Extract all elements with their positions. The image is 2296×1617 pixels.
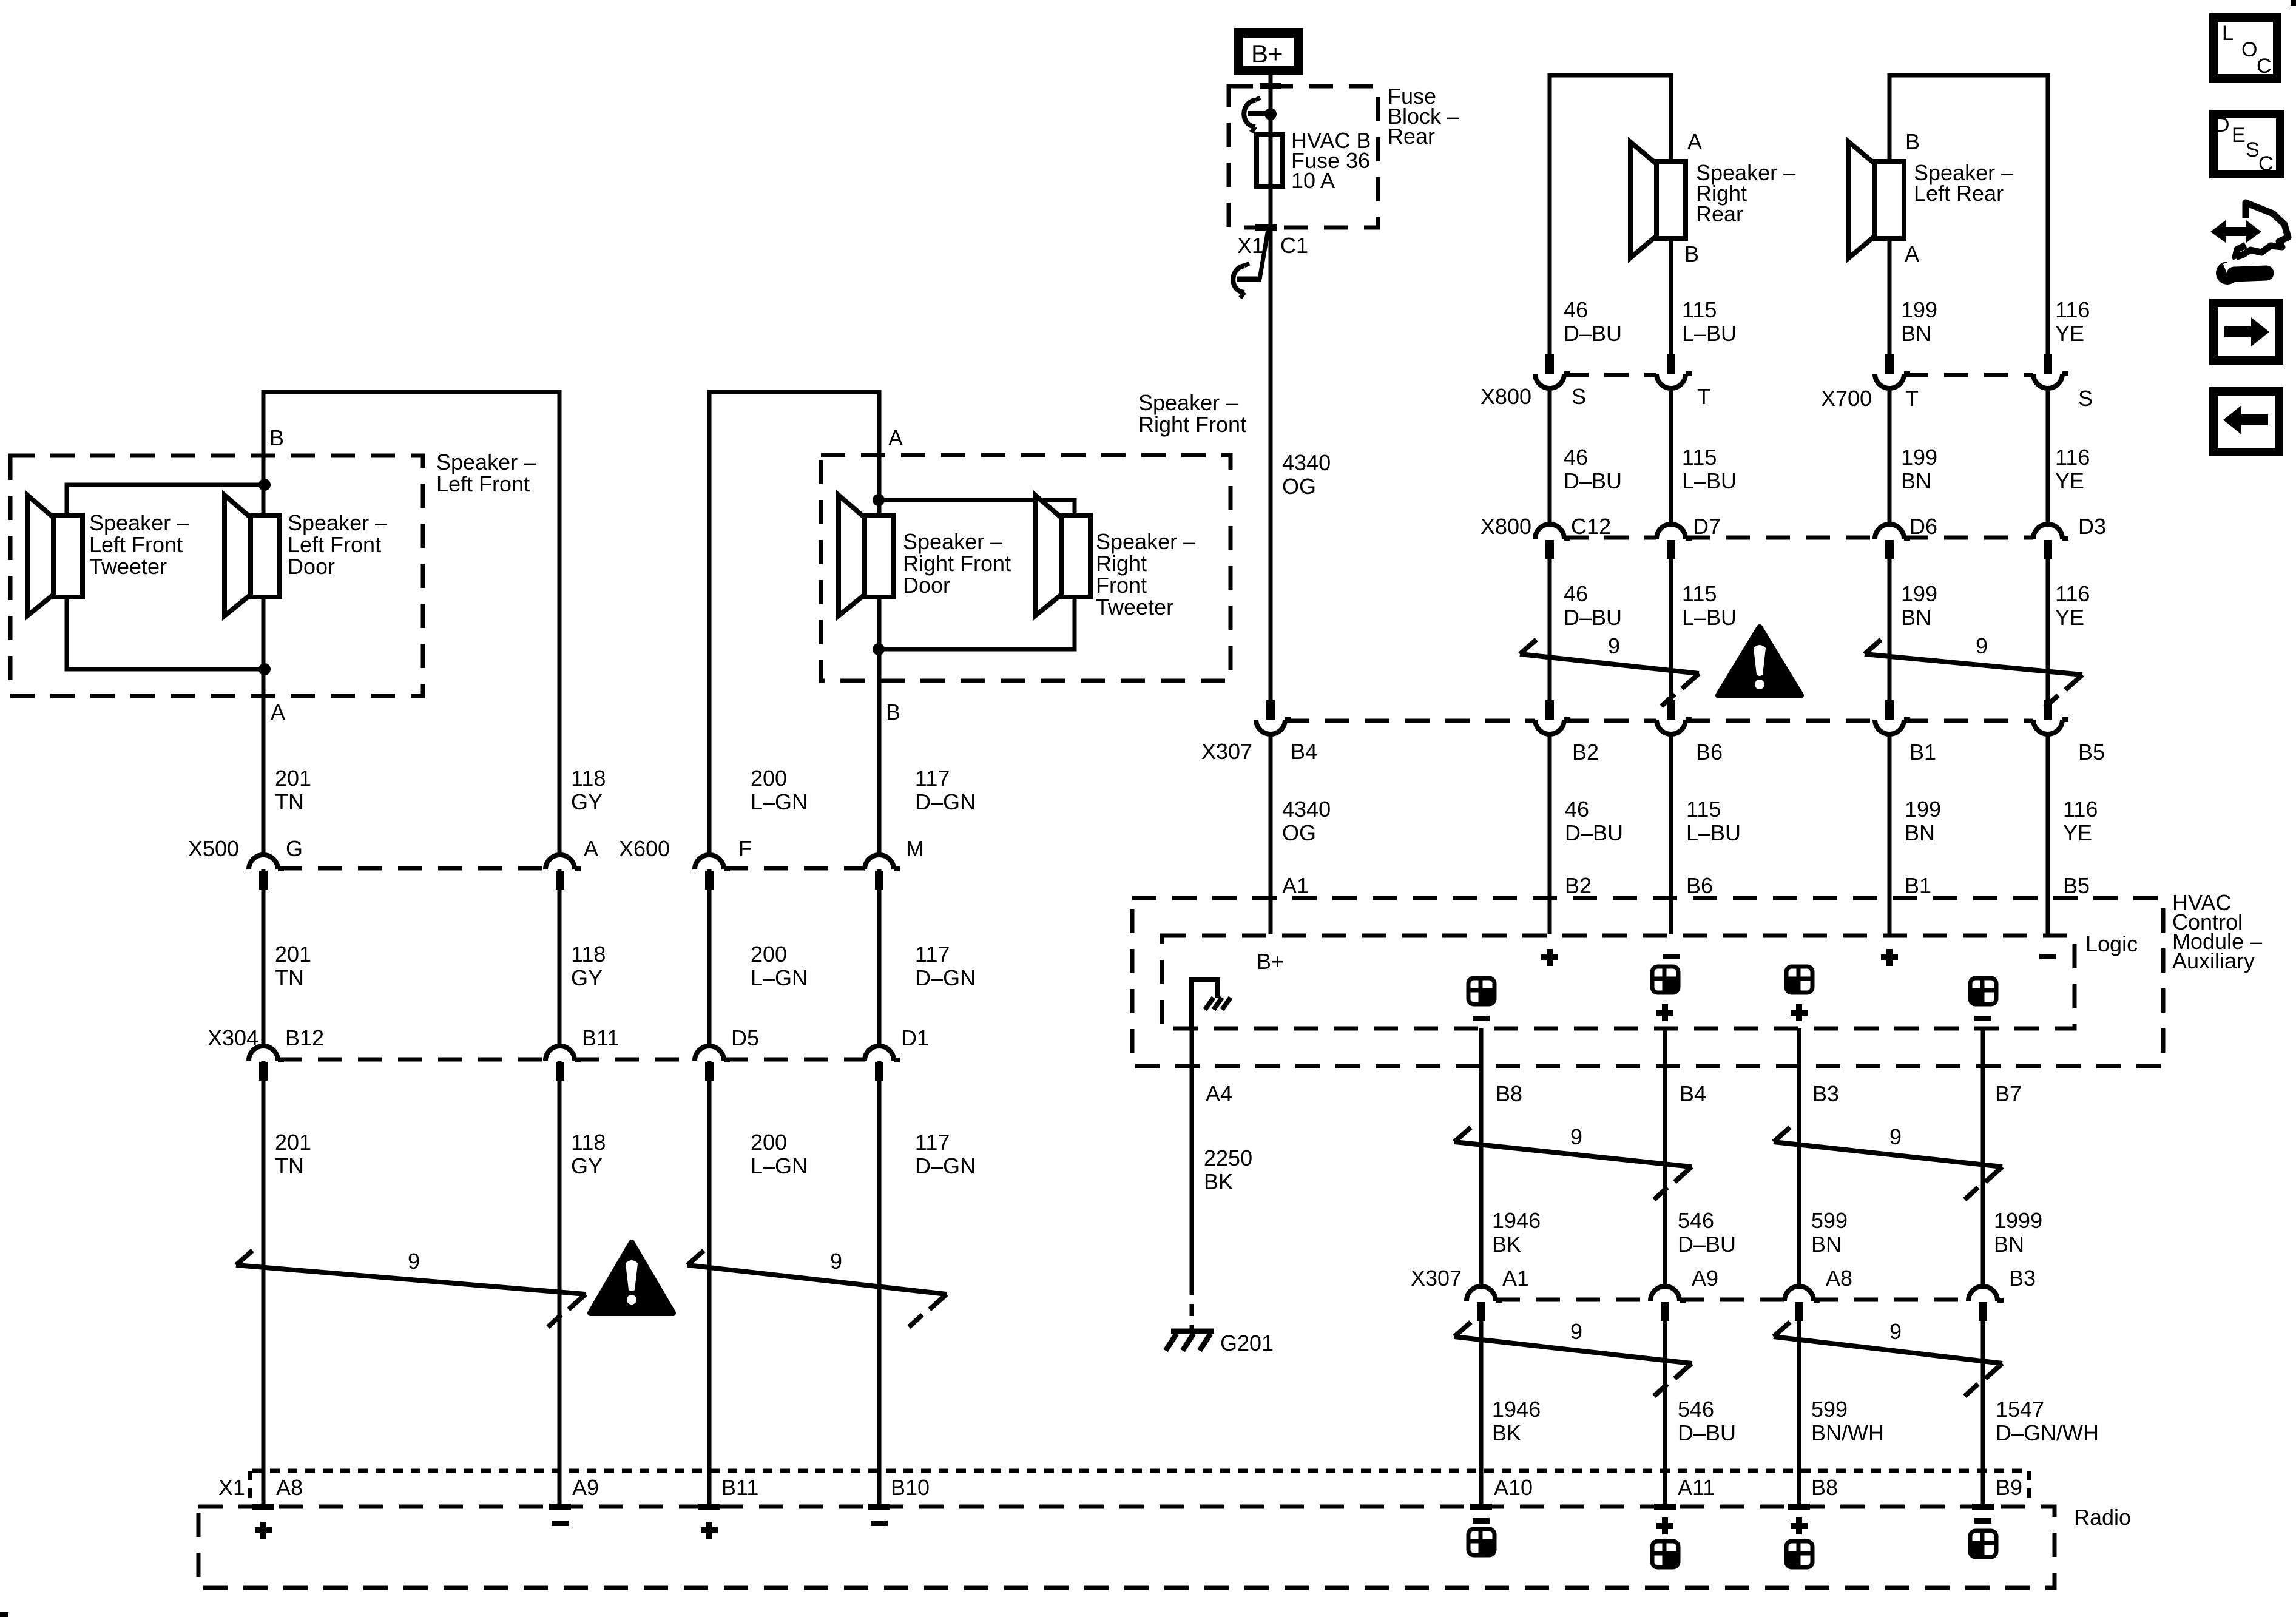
speaker icon radio A11: [1652, 1541, 1678, 1567]
connector X304 pin D1: [865, 1046, 900, 1081]
wire label 116 YE row1: [2055, 297, 2090, 346]
svg-text:Left Front: Left Front: [288, 532, 381, 557]
harness dashed line X307-B4 to B2: [1285, 719, 1535, 723]
speaker icon radio B9: [1970, 1531, 1996, 1557]
svg-text:B: B: [886, 700, 900, 724]
svg-text:B7: B7: [1995, 1081, 2022, 1106]
wire loop speaker right front outer: [709, 392, 879, 1505]
junction dot in fuse block: [1264, 108, 1277, 120]
label speaker right front: [1138, 390, 1246, 437]
connector X1 C1 branch symbol: [1233, 229, 1268, 298]
wire label 546 D-BU lower: [1678, 1397, 1736, 1445]
wire label 201 TN row2: [275, 942, 311, 990]
svg-text:10 A: 10 A: [1291, 168, 1335, 193]
svg-text:B: B: [1684, 241, 1699, 266]
harness dashed line X600: [724, 866, 865, 871]
wire label 599 BN upper: [1811, 1208, 1848, 1257]
svg-text:B3: B3: [2009, 1266, 2036, 1291]
svg-text:201: 201: [275, 1130, 311, 1155]
svg-text:2250: 2250: [1204, 1146, 1252, 1170]
legend icon LOC box: [2213, 18, 2277, 78]
wire label 199 BN row1: [1901, 297, 1937, 346]
wire loop speaker left rear: [1889, 75, 2048, 354]
speaker - left front dashed box: [10, 456, 423, 696]
svg-text:D–BU: D–BU: [1564, 321, 1622, 346]
svg-text:L–BU: L–BU: [1682, 605, 1737, 630]
polarity + at B8 radio: [1791, 1517, 1808, 1534]
wire 116 YE segment 2: [2046, 557, 2050, 701]
polarity - at B6: [1663, 954, 1680, 959]
svg-text:200: 200: [751, 766, 787, 791]
speaker icon output B8: [1468, 978, 1494, 1004]
wire label 46 D-BU row4: [1565, 797, 1623, 845]
svg-text:Speaker –: Speaker –: [288, 510, 387, 535]
svg-text:A11: A11: [1678, 1475, 1715, 1500]
connector X800 pin C12: [1535, 524, 1570, 559]
connector X700 pin S: [2033, 354, 2068, 388]
svg-text:D5: D5: [731, 1025, 759, 1050]
wire label 2250 BK: [1204, 1146, 1252, 1194]
svg-text:GY: GY: [571, 1153, 603, 1178]
wire 4340 OG to HVAC B+: [1269, 735, 1273, 934]
harness dashed line X800 upper: [1564, 373, 1656, 377]
svg-text:B1: B1: [1909, 740, 1936, 765]
junction node A right front: [873, 494, 885, 506]
wire label 201 TN row3: [275, 1130, 311, 1178]
twisted pair symbol right front: [687, 1251, 947, 1327]
wire label 199 BN row2: [1901, 445, 1937, 493]
svg-text:B+: B+: [1251, 39, 1283, 68]
wire label 115 L-BU row3: [1682, 581, 1737, 630]
svg-text:Logic: Logic: [2085, 931, 2138, 956]
connector X800 pin S: [1535, 354, 1570, 388]
svg-text:599: 599: [1811, 1397, 1848, 1422]
svg-text:X800: X800: [1481, 514, 1531, 539]
svg-text:D–GN: D–GN: [915, 965, 976, 990]
wire 115 L-BU segment 2: [1669, 557, 1673, 701]
svg-text:A4: A4: [1206, 1081, 1232, 1106]
label Fuse Block - Rear: [1388, 84, 1459, 149]
connector X307 pin B3 lower: [1968, 1286, 2004, 1321]
svg-text:546: 546: [1678, 1208, 1714, 1233]
svg-text:A: A: [271, 700, 285, 724]
wire label 115 L-BU row4: [1686, 797, 1741, 845]
wire end tick A10: [1470, 1504, 1492, 1510]
wire 116 YE segment: [2046, 391, 2050, 522]
tick wire crossing fuse box bottom: [1255, 224, 1277, 231]
svg-text:46: 46: [1564, 581, 1588, 606]
svg-text:D–BU: D–BU: [1564, 605, 1622, 630]
svg-text:546: 546: [1678, 1397, 1714, 1422]
wire loop speaker left front outer: [263, 392, 559, 1505]
polarity - at B7: [1974, 1016, 1991, 1021]
wire 46 D-BU segment 2: [1548, 557, 1552, 701]
connector pin B6: [1656, 700, 1692, 734]
svg-text:46: 46: [1564, 445, 1588, 470]
svg-text:Speaker –: Speaker –: [89, 510, 189, 535]
svg-text:Right: Right: [1096, 551, 1147, 576]
connector X307 pin A8: [1784, 1286, 1820, 1321]
svg-text:L: L: [2222, 22, 2234, 45]
speaker icon output B3: [1786, 967, 1812, 993]
connector X304 pin B11: [545, 1046, 581, 1081]
wire 546 D-BU upper: [1663, 1028, 1667, 1284]
svg-text:Tweeter: Tweeter: [1096, 595, 1173, 619]
polarity - at B9 radio: [1974, 1518, 1991, 1524]
svg-text:Door: Door: [288, 554, 335, 579]
svg-text:BN: BN: [1901, 321, 1931, 346]
wire label 46 D-BU row2: [1564, 445, 1622, 493]
wire end tick B11: [698, 1504, 720, 1510]
harness dashed line X800 lower a: [1564, 536, 1656, 540]
junction node B right front: [873, 643, 885, 655]
wire 1946 BK lower: [1479, 1320, 1484, 1505]
svg-text:9: 9: [1889, 1124, 1902, 1149]
label speaker right rear: [1696, 160, 1795, 226]
svg-text:118: 118: [571, 1130, 606, 1155]
svg-text:BN: BN: [1901, 605, 1931, 630]
fuse block - rear dashed box: [1229, 86, 1378, 228]
svg-text:46: 46: [1565, 797, 1589, 822]
fuse HVAC B Fuse 36 10 A: [1257, 135, 1283, 186]
svg-text:201: 201: [275, 942, 311, 967]
svg-text:C1: C1: [1280, 233, 1308, 258]
wire 2250 BK hidden segment: [1190, 1283, 1194, 1329]
svg-text:1999: 1999: [1994, 1208, 2042, 1233]
warning triangle rear: [1718, 627, 1801, 695]
polarity + at B1: [1881, 949, 1898, 966]
twisted pair symbol B8-B4 upper: [1454, 1127, 1692, 1200]
wire end tick B10: [868, 1504, 890, 1510]
svg-text:Rear: Rear: [1388, 124, 1435, 149]
harness dashed line X700 upper: [1904, 373, 2033, 377]
twisted pair symbol B3-B7 upper: [1774, 1127, 2002, 1200]
svg-text:BN: BN: [1905, 820, 1935, 845]
svg-text:D: D: [2215, 113, 2230, 137]
svg-text:A: A: [1905, 241, 1919, 266]
svg-text:115: 115: [1682, 297, 1717, 322]
svg-text:TN: TN: [275, 1153, 304, 1178]
svg-text:B12: B12: [285, 1025, 324, 1050]
svg-text:1946: 1946: [1492, 1208, 1541, 1233]
svg-text:L–BU: L–BU: [1682, 321, 1737, 346]
svg-text:200: 200: [751, 1130, 787, 1155]
wire label 1946 BK lower: [1492, 1397, 1541, 1445]
svg-text:A: A: [888, 425, 903, 450]
tick wire crossing fuse box top: [1260, 83, 1281, 89]
logic dashed box: [1162, 936, 2075, 1028]
connector X1 pass-through dotted line: [252, 1469, 2027, 1473]
svg-text:118: 118: [571, 766, 606, 791]
svg-text:E: E: [2232, 124, 2246, 147]
svg-text:OG: OG: [1282, 820, 1316, 845]
svg-text:B6: B6: [1696, 740, 1723, 765]
harness dashed line B6-B1: [1686, 719, 1875, 723]
svg-text:B1: B1: [1905, 873, 1931, 898]
wire label 115 L-BU row1: [1682, 297, 1737, 346]
wire label 200 L-GN row2: [751, 942, 808, 990]
svg-text:9: 9: [1976, 633, 1988, 658]
wire 4340 OG from B+ through fuse to X307 B4: [1269, 70, 1273, 701]
polarity + at B2: [1541, 949, 1558, 966]
svg-text:Left Front: Left Front: [436, 471, 530, 496]
twisted pair symbol rear right: [1520, 640, 1699, 706]
label speaker left rear: [1914, 160, 2013, 206]
svg-text:4340: 4340: [1282, 797, 1331, 822]
svg-text:TN: TN: [275, 789, 304, 814]
speaker - right front door symbol: [839, 495, 894, 616]
svg-text:199: 199: [1905, 797, 1941, 822]
svg-text:9: 9: [830, 1249, 842, 1274]
wire end tick A9: [549, 1504, 571, 1510]
wire label 200 L-GN row3: [751, 1130, 808, 1178]
svg-text:GY: GY: [571, 965, 603, 990]
corner mark top right: [2291, 0, 2296, 6]
junction node A left front: [258, 663, 271, 675]
svg-text:B8: B8: [1496, 1081, 1522, 1106]
svg-text:L–BU: L–BU: [1686, 820, 1741, 845]
wire 115 L-BU segment: [1669, 391, 1673, 522]
connector X700 pin D3: [2033, 524, 2068, 559]
wire label 118 GY row3: [571, 1130, 606, 1178]
connector X500 pin A: [545, 855, 581, 890]
svg-text:GY: GY: [571, 789, 603, 814]
speaker icon radio B8: [1786, 1541, 1812, 1567]
svg-text:O: O: [2241, 38, 2257, 61]
svg-text:B: B: [269, 425, 284, 450]
svg-text:117: 117: [915, 1130, 950, 1155]
svg-text:9: 9: [1889, 1319, 1902, 1344]
svg-text:A1: A1: [1282, 873, 1309, 898]
svg-text:201: 201: [275, 766, 311, 791]
label speaker right front tweeter: [1096, 529, 1195, 619]
svg-text:9: 9: [408, 1249, 420, 1274]
harness dashed line X304 c: [724, 1058, 865, 1062]
corner mark bottom left: [0, 1612, 8, 1617]
svg-text:Left Rear: Left Rear: [1914, 181, 2004, 206]
svg-text:199: 199: [1901, 445, 1937, 470]
svg-text:T: T: [1905, 386, 1919, 411]
svg-text:115: 115: [1686, 797, 1721, 822]
svg-text:B2: B2: [1565, 873, 1592, 898]
X1 dotted stub right: [2027, 1471, 2031, 1501]
connector pin B5: [2033, 700, 2068, 734]
svg-text:B: B: [1905, 129, 1920, 154]
wire 199 BN to HVAC B1: [1888, 735, 1892, 934]
connector X307 pin A9: [1650, 1286, 1686, 1321]
connector X800 pin T: [1656, 354, 1692, 388]
svg-text:D–GN: D–GN: [915, 789, 976, 814]
svg-text:C12: C12: [1571, 514, 1611, 539]
svg-text:B11: B11: [582, 1025, 619, 1050]
legend icon adjust hand with wrench: [2210, 203, 2288, 285]
speaker - right front tweeter symbol: [1035, 495, 1090, 616]
svg-text:D1: D1: [901, 1025, 929, 1050]
harness dashed line X304 a: [278, 1058, 545, 1062]
wire 1946 BK upper: [1479, 1028, 1484, 1284]
svg-text:1547: 1547: [1996, 1397, 2044, 1422]
svg-text:L–GN: L–GN: [751, 1153, 808, 1178]
wire end tick A11: [1654, 1504, 1676, 1510]
connector X600 pin F: [695, 855, 730, 890]
svg-text:Speaker –: Speaker –: [1096, 529, 1195, 554]
harness dashed line X304 b: [575, 1058, 695, 1062]
svg-text:OG: OG: [1282, 474, 1316, 499]
svg-text:A8: A8: [1826, 1266, 1852, 1291]
harness dashed line X800 lower b: [1686, 536, 1875, 540]
svg-text:Radio: Radio: [2074, 1505, 2131, 1530]
legend icon DESC box: [2213, 113, 2280, 175]
svg-text:9: 9: [1570, 1319, 1582, 1344]
wire 2250 BK ground A4: [1190, 1028, 1194, 1283]
wire label 117 D-GN row2: [915, 942, 976, 990]
speaker - right front dashed box: [821, 455, 1231, 681]
svg-text:B11: B11: [721, 1475, 758, 1500]
svg-text:A: A: [1687, 129, 1702, 154]
wire label 1547 D-GN/WH: [1996, 1397, 2099, 1445]
svg-text:B+: B+: [1257, 949, 1284, 974]
svg-text:B6: B6: [1686, 873, 1713, 898]
svg-text:A9: A9: [572, 1475, 599, 1500]
svg-text:BN: BN: [1901, 468, 1931, 493]
svg-text:B5: B5: [2078, 740, 2105, 765]
wire inner loop right front tweeter: [879, 500, 1075, 649]
svg-text:46: 46: [1564, 297, 1588, 322]
wire label 4340 OG lower: [1282, 797, 1331, 845]
wire 599 BN upper: [1797, 1028, 1801, 1284]
svg-text:116: 116: [2055, 581, 2090, 606]
svg-text:A9: A9: [1692, 1266, 1718, 1291]
polarity - at B8: [1473, 1016, 1490, 1021]
svg-text:Right Front: Right Front: [903, 551, 1011, 576]
wire label 199 BN row3: [1901, 581, 1937, 630]
wire label 1999 BN: [1994, 1208, 2042, 1257]
wire label 200 L-GN row1: [751, 766, 808, 814]
wire 199 BN segment: [1888, 391, 1892, 522]
speaker icon radio A10: [1468, 1529, 1494, 1555]
twisted pair symbol rear left: [1865, 640, 2082, 707]
harness dashed line X800 lower c: [1904, 536, 2033, 540]
wire label 118 GY row2: [571, 942, 606, 990]
ground symbol G201: [1166, 1331, 1214, 1351]
svg-text:B9: B9: [1996, 1475, 2022, 1500]
svg-text:L–BU: L–BU: [1682, 468, 1737, 493]
svg-text:116: 116: [2055, 445, 2090, 470]
svg-text:X307: X307: [1201, 739, 1252, 764]
svg-text:9: 9: [1608, 633, 1620, 658]
svg-text:Tweeter: Tweeter: [89, 554, 167, 579]
svg-text:S: S: [1572, 384, 1586, 409]
connector pin B1: [1875, 700, 1910, 734]
harness dashed line X500: [278, 866, 545, 871]
harness dashed line X307 lower a: [1496, 1298, 1650, 1302]
connector X307 pin A1 lower: [1467, 1286, 1502, 1321]
wire label 115 L-BU row2: [1682, 445, 1737, 493]
wire label 599 BN/WH: [1811, 1397, 1884, 1445]
polarity - at B5: [2039, 954, 2056, 959]
svg-text:Speaker –: Speaker –: [1138, 390, 1238, 415]
svg-text:Front: Front: [1096, 573, 1147, 598]
svg-text:A10: A10: [1494, 1475, 1533, 1500]
wire 1999 BN upper: [1981, 1028, 1985, 1284]
svg-text:116: 116: [2055, 297, 2090, 322]
svg-text:C: C: [2257, 55, 2272, 78]
HVAC control module - auxiliary dashed box: [1132, 898, 2163, 1066]
polarity - at A10 radio: [1473, 1518, 1490, 1524]
svg-text:D–BU: D–BU: [1678, 1232, 1736, 1257]
polarity + at B3: [1791, 1004, 1808, 1021]
wire 599 BN/WH lower: [1797, 1320, 1801, 1505]
svg-text:BK: BK: [1492, 1232, 1521, 1257]
connector pin B2: [1535, 700, 1570, 734]
svg-text:B4: B4: [1291, 739, 1317, 764]
wire 116 YE to HVAC B5: [2046, 735, 2050, 934]
svg-text:9: 9: [1570, 1124, 1582, 1149]
svg-text:YE: YE: [2063, 820, 2092, 845]
svg-text:YE: YE: [2055, 468, 2084, 493]
svg-text:S: S: [2078, 386, 2093, 411]
wire end tick B8: [1788, 1504, 1810, 1510]
wire through fuse element: [1269, 135, 1273, 185]
svg-text:G: G: [286, 836, 303, 861]
polarity - at B10 radio: [871, 1521, 888, 1526]
svg-text:116: 116: [2063, 797, 2098, 822]
svg-text:117: 117: [915, 766, 950, 791]
connector X700 pin D6: [1875, 524, 1910, 559]
svg-text:A1: A1: [1502, 1266, 1529, 1291]
wire 115 L-BU to HVAC B6: [1669, 735, 1673, 934]
wire 546 D-BU lower: [1663, 1320, 1667, 1505]
twisted pair symbol B8-B4 lower: [1454, 1322, 1692, 1396]
svg-text:T: T: [1697, 384, 1710, 409]
label speaker right front door: [903, 529, 1011, 598]
svg-text:B5: B5: [2063, 873, 2090, 898]
power symbol B+: [1238, 33, 1298, 70]
svg-text:X1: X1: [218, 1475, 245, 1500]
warning triangle front: [590, 1243, 673, 1313]
svg-text:D–BU: D–BU: [1565, 820, 1623, 845]
svg-text:L–GN: L–GN: [751, 789, 808, 814]
svg-text:Right Front: Right Front: [1138, 412, 1246, 437]
harness dashed line X307 lower c: [1814, 1298, 1968, 1302]
svg-text:TN: TN: [275, 965, 304, 990]
svg-text:Speaker –: Speaker –: [903, 529, 1002, 554]
svg-text:599: 599: [1811, 1208, 1848, 1233]
speaker icon output B7: [1970, 978, 1996, 1004]
X1 dotted stub left: [248, 1471, 252, 1501]
svg-text:BN: BN: [1994, 1232, 2024, 1257]
connector X800 pin D7: [1656, 524, 1692, 559]
svg-text:X307: X307: [1411, 1266, 1462, 1291]
wire label 1946 BK upper: [1492, 1208, 1541, 1257]
svg-text:S: S: [2246, 138, 2260, 161]
svg-text:Auxiliary: Auxiliary: [2172, 948, 2255, 973]
svg-text:D–BU: D–BU: [1678, 1420, 1736, 1445]
harness dashed line B2-B6: [1564, 719, 1656, 723]
svg-text:Door: Door: [903, 573, 950, 598]
connector X700 pin T: [1875, 354, 1910, 388]
svg-text:D–GN/WH: D–GN/WH: [1996, 1420, 2099, 1445]
svg-text:B3: B3: [1812, 1081, 1839, 1106]
twisted pair symbol left front: [236, 1251, 586, 1327]
wire label 199 BN row4: [1905, 797, 1941, 845]
svg-text:115: 115: [1682, 581, 1717, 606]
connector X600 pin M: [865, 855, 900, 890]
svg-text:YE: YE: [2055, 605, 2084, 630]
wire loop speaker right rear: [1550, 75, 1671, 354]
svg-text:X1: X1: [1237, 233, 1264, 258]
wire label 118 GY row1: [571, 766, 606, 814]
